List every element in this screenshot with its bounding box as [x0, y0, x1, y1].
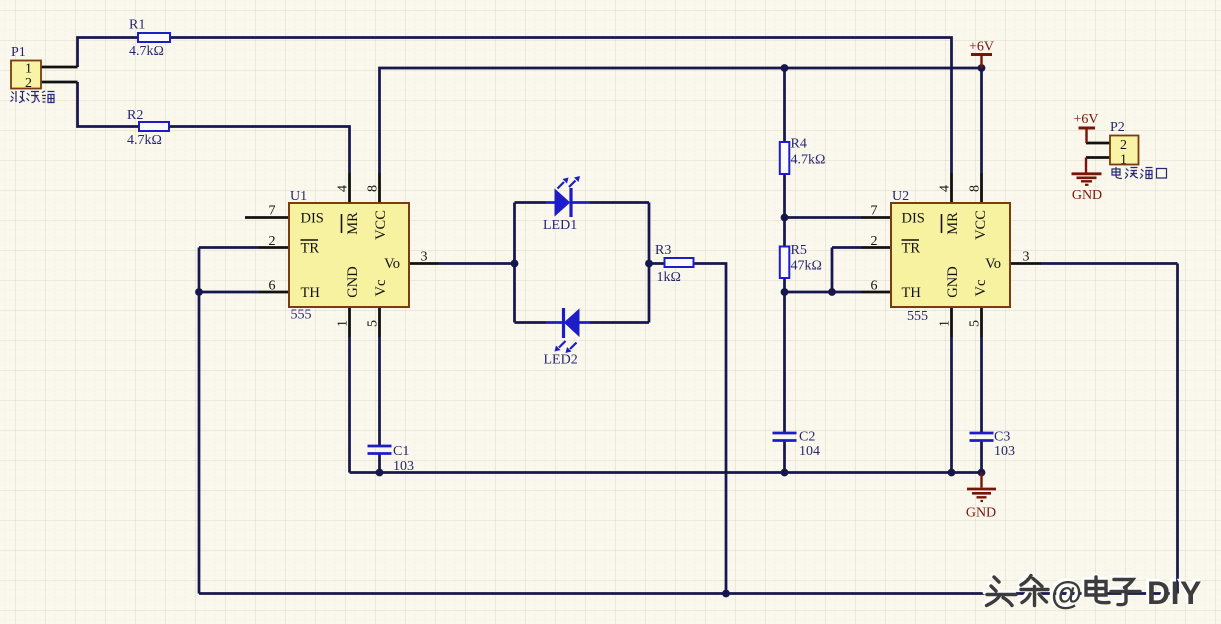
wire LED2 right — [590, 321, 649, 324]
junction U2 pin1 — [948, 469, 956, 477]
svg-text:1kΩ: 1kΩ — [657, 270, 681, 285]
pin U1.3 — [409, 262, 439, 265]
wire C1 to ground rail — [378, 455, 381, 473]
svg-text:Vc: Vc — [373, 280, 389, 297]
pin P2.1 — [1086, 156, 1110, 159]
wire +6V rail to U2 pin8 — [980, 68, 983, 173]
svg-text:C3: C3 — [994, 430, 1010, 445]
junction R4 top — [781, 64, 789, 72]
svg-text:R1: R1 — [129, 18, 145, 33]
wire U2 TH — [785, 291, 862, 294]
svg-text:VCC: VCC — [373, 210, 389, 240]
ground GND at P2 — [1072, 158, 1103, 204]
pin U1.5 — [378, 307, 381, 337]
wire U2 DIS — [785, 216, 862, 219]
svg-text:4.7kΩ: 4.7kΩ — [129, 44, 164, 59]
svg-text:4: 4 — [938, 185, 953, 192]
svg-text:+6V: +6V — [969, 40, 994, 55]
svg-text:3: 3 — [421, 250, 428, 265]
pin name U2 TR — [902, 240, 921, 257]
svg-text:8: 8 — [968, 185, 983, 192]
wire U1 TR stub — [199, 246, 259, 249]
resistor R2 — [139, 122, 169, 131]
junction LED branch left — [511, 260, 519, 268]
wire U2 pin1 down — [950, 337, 953, 473]
junction R3 bottom — [722, 590, 730, 598]
label C2 — [799, 430, 820, 460]
junction R4 bottom DIS — [781, 214, 789, 222]
svg-text:4.7kΩ: 4.7kΩ — [791, 153, 826, 168]
label P1 Chinese ceshiduan — [11, 91, 55, 103]
ic U1 555 body — [289, 203, 409, 307]
ic U2 555 body — [891, 203, 1010, 307]
svg-text:TH: TH — [301, 285, 321, 301]
label R1 — [129, 18, 164, 60]
svg-text:GND: GND — [345, 266, 361, 297]
svg-text:5: 5 — [366, 320, 381, 327]
svg-text:555: 555 — [291, 308, 312, 323]
svg-text:2: 2 — [269, 234, 276, 249]
wire R3 to bottom rail — [694, 264, 727, 594]
svg-text:R5: R5 — [791, 243, 807, 258]
wire LED branch left vertical — [513, 203, 516, 323]
svg-text:U1: U1 — [290, 189, 307, 204]
label R5 — [791, 243, 822, 274]
pin U2.7 — [861, 216, 891, 219]
power +6V top — [969, 40, 994, 69]
junction U1 TH — [195, 288, 203, 296]
diode LED1 — [546, 176, 590, 217]
wire left vertical — [198, 248, 201, 594]
resistor R3 — [665, 258, 694, 267]
wire C3 to ground rail — [980, 442, 983, 473]
svg-text:1: 1 — [336, 320, 351, 327]
wire U2 TR — [832, 246, 861, 249]
junction C2 — [781, 469, 789, 477]
svg-text:2: 2 — [871, 234, 878, 249]
wire R1 to U2 pin4 — [170, 38, 952, 174]
pin P1.2 — [41, 81, 78, 84]
label R4 — [791, 137, 826, 168]
junction C3 GND — [978, 469, 986, 477]
junction LED branch right — [645, 260, 653, 268]
svg-text:47kΩ: 47kΩ — [791, 259, 822, 274]
connector P2 body — [1110, 136, 1139, 165]
svg-text:6: 6 — [269, 279, 276, 294]
connector P1 body — [11, 61, 41, 89]
svg-text:R2: R2 — [127, 108, 143, 123]
wire U2 Vo — [1041, 262, 1178, 265]
label P2 Chinese dianyuanduankou — [1112, 167, 1167, 179]
svg-text:5: 5 — [968, 320, 983, 327]
svg-text:3: 3 — [1023, 250, 1030, 265]
wire LED1 left — [515, 201, 547, 204]
wire P1 pin2 to R2 — [78, 82, 140, 127]
diode LED2 — [546, 308, 590, 353]
capacitor C3 — [970, 433, 994, 441]
pin name U1 MR — [342, 212, 362, 235]
junction U2 TR vertical — [828, 288, 836, 296]
resistor R4 — [780, 142, 790, 174]
pin P2.2 — [1086, 142, 1110, 145]
capacitor C1 — [368, 446, 392, 454]
svg-text:+6V: +6V — [1073, 112, 1098, 127]
svg-text:Vo: Vo — [985, 256, 1001, 272]
label C3 — [994, 430, 1015, 460]
svg-text:1: 1 — [1120, 153, 1127, 168]
label R2 — [127, 108, 162, 148]
svg-text:4.7kΩ: 4.7kΩ — [127, 133, 162, 148]
svg-text:555: 555 — [907, 309, 928, 324]
pin U1.4 — [348, 173, 351, 203]
svg-text:TR: TR — [902, 241, 921, 257]
svg-text:MR: MR — [945, 212, 961, 235]
svg-text:R4: R4 — [791, 137, 807, 152]
wire R2 to U1 pin4 — [169, 127, 350, 174]
svg-text:8: 8 — [366, 185, 381, 192]
svg-text:103: 103 — [393, 459, 414, 474]
wire U1 Vo to LED branch — [439, 262, 515, 265]
wire C2 to ground rail — [783, 442, 786, 473]
svg-text:TR: TR — [301, 241, 320, 257]
wire TH row to C2 — [783, 292, 786, 432]
svg-text:@: @ — [1051, 575, 1081, 611]
label R3 — [655, 243, 681, 285]
pin U1.7 DIS stub — [245, 216, 289, 219]
svg-text:2: 2 — [25, 76, 32, 91]
wire LED1 right — [590, 201, 649, 204]
svg-text:U2: U2 — [892, 189, 909, 204]
pin U1.1 — [348, 307, 351, 337]
wire R4 to R5 — [783, 174, 786, 247]
wire U1 pin1 down — [348, 337, 351, 473]
pin U1.8 — [378, 173, 381, 203]
pin name U1 TR — [301, 240, 320, 257]
svg-text:P2: P2 — [1110, 120, 1125, 135]
wire R4 top — [783, 68, 786, 142]
svg-text:7: 7 — [871, 204, 878, 219]
pin U2.8 — [980, 173, 983, 203]
svg-text:Vc: Vc — [973, 280, 989, 297]
wire LED branch right vertical — [648, 203, 651, 323]
wire U1 pin5 to C1 — [378, 337, 381, 445]
svg-text:P1: P1 — [11, 45, 26, 60]
pin U2.6 — [861, 291, 891, 294]
svg-text:C2: C2 — [799, 430, 815, 445]
svg-text:GND: GND — [1072, 188, 1102, 203]
svg-text:DIS: DIS — [301, 211, 324, 227]
svg-text:GND: GND — [966, 506, 996, 521]
svg-text:1: 1 — [938, 320, 953, 327]
svg-text:4: 4 — [336, 185, 351, 192]
svg-text:2: 2 — [1120, 138, 1127, 153]
svg-text:R3: R3 — [655, 243, 671, 258]
pin P1.1 — [41, 66, 78, 69]
svg-text:LED2: LED2 — [544, 353, 578, 368]
resistor R1 — [138, 33, 170, 42]
svg-text:103: 103 — [994, 444, 1015, 459]
power +6V at P2 — [1073, 112, 1098, 143]
wire U1 TH stub — [199, 291, 259, 294]
pin U2.4 — [950, 173, 953, 203]
wire bottom rail — [199, 592, 1178, 595]
svg-text:6: 6 — [871, 279, 878, 294]
label C1 — [393, 444, 414, 474]
junction R5 bottom TH — [781, 288, 789, 296]
pin U2.3 — [1010, 262, 1041, 265]
junction +6V rail — [978, 64, 986, 72]
svg-text:GND: GND — [945, 266, 961, 297]
wire right vertical — [1176, 264, 1179, 594]
ground GND at C3 — [966, 473, 996, 521]
pin U1.6 — [259, 291, 289, 294]
svg-text:DIS: DIS — [902, 211, 925, 227]
wire R5 to TH row — [783, 278, 786, 292]
svg-text:Vo: Vo — [384, 256, 400, 272]
wire LED branch to R3 — [649, 262, 665, 265]
svg-text:DIY: DIY — [1147, 575, 1202, 611]
wire U2 pin5 to C3 — [980, 337, 983, 432]
wire U2 TR vertical — [831, 248, 834, 293]
junction C1 — [376, 469, 384, 477]
svg-text:C1: C1 — [393, 444, 409, 459]
watermark toutiao at dianziDIY — [984, 573, 1202, 611]
wire P1 pin1 to R1 — [78, 38, 139, 68]
wire ground rail — [350, 471, 982, 474]
pin U2.2 — [861, 246, 891, 249]
pin U1.2 — [259, 246, 289, 249]
wire LED2 left — [515, 321, 547, 324]
svg-text:VCC: VCC — [973, 210, 989, 240]
capacitor C2 — [773, 433, 797, 441]
pin U2.5 — [980, 307, 983, 337]
svg-text:TH: TH — [902, 285, 922, 301]
pin U2.1 — [950, 307, 953, 337]
svg-text:LED1: LED1 — [543, 218, 577, 233]
pin name U2 MR — [942, 212, 962, 235]
svg-text:104: 104 — [799, 444, 820, 459]
svg-text:1: 1 — [25, 62, 32, 77]
svg-text:MR: MR — [345, 212, 361, 235]
svg-text:7: 7 — [269, 204, 276, 219]
wire U1 pin8 to +6V rail — [380, 68, 982, 173]
resistor R5 — [780, 247, 790, 279]
